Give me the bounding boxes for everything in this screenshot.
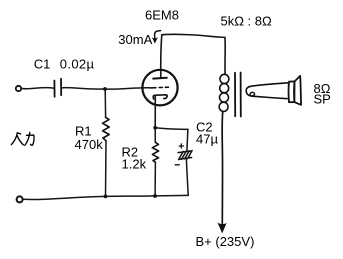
- capacitor C1: [54, 79, 61, 97]
- node R2 bottom: [153, 194, 157, 198]
- wire top: [162, 34, 225, 37]
- B+ arrowhead: [217, 222, 226, 233]
- wire R1 top lead: [104, 89, 106, 117]
- tube grid dashes: [150, 86, 168, 89]
- speaker cone: [294, 76, 301, 105]
- transformer core: [235, 73, 241, 117]
- wire right vertical: [224, 37, 226, 74]
- svg-text:B+ (235V): B+ (235V): [196, 234, 255, 249]
- capacitor C2 minus sign: [175, 164, 179, 166]
- wire R1 bottom lead: [105, 141, 108, 197]
- svg-text:SP: SP: [314, 92, 331, 107]
- svg-text:0.02µ: 0.02µ: [60, 57, 95, 72]
- input terminal bottom: [17, 196, 23, 202]
- svg-text:C1: C1: [34, 57, 51, 72]
- wire R2 top lead: [154, 128, 156, 143]
- wire: [21, 88, 53, 89]
- wire C2 upper lead: [187, 129, 188, 150]
- tube U1 envelope: [142, 70, 177, 106]
- resistor R2: [152, 142, 158, 162]
- label input (kanji nyuuryoku): [11, 132, 34, 145]
- node grid junction: [103, 87, 107, 91]
- tube plate lead: [161, 35, 162, 78]
- wire: [61, 88, 105, 90]
- tube cathode: [153, 95, 167, 99]
- input terminal top: [16, 86, 21, 91]
- node cathode junction: [153, 126, 157, 130]
- svg-text:6EM8: 6EM8: [145, 8, 179, 23]
- wire C2 top branch: [155, 128, 188, 130]
- tube cathode lead: [154, 95, 156, 128]
- speaker driver box: [289, 81, 295, 102]
- node R1 bottom: [104, 195, 108, 199]
- resistor R1: [103, 117, 110, 141]
- svg-text:47µ: 47µ: [196, 132, 218, 147]
- svg-text:30mA: 30mA: [118, 32, 152, 47]
- wire B+ line: [221, 112, 224, 224]
- current arrow: [155, 31, 161, 40]
- wire R2 bottom lead: [154, 162, 156, 196]
- svg-text:1.2k: 1.2k: [122, 157, 147, 172]
- wire: [105, 88, 150, 89]
- transformer secondary loop: [246, 83, 288, 99]
- capacitor C2: [178, 151, 192, 160]
- wire C2 lower lead: [186, 159, 188, 195]
- wire bottom: [23, 195, 189, 199]
- tube plate: [153, 77, 167, 80]
- transformer T1 primary: [219, 74, 229, 111]
- capacitor C2 plus sign: [179, 144, 183, 148]
- svg-text:470k: 470k: [75, 137, 104, 152]
- svg-text:5kΩ : 8Ω: 5kΩ : 8Ω: [221, 14, 273, 29]
